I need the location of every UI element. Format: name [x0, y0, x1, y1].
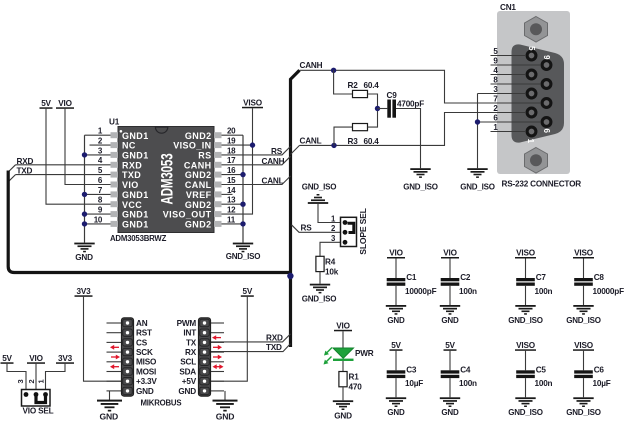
power 3V3 above mikrobus [75, 287, 93, 297]
wire RS from bus to SLOPE SEL pin2 [292, 225, 341, 233]
svg-text:10k: 10k [325, 267, 339, 276]
wire 3V3 to +3.3V pin [84, 297, 122, 381]
svg-text:GND: GND [100, 412, 119, 422]
wire CN1 pin 2 [445, 112, 526, 114]
svg-text:100n: 100n [459, 379, 477, 388]
wire 5V to pin8 VCC [46, 109, 111, 204]
wire gnd to SLOPE SEL pin1 [318, 204, 341, 223]
wire stubs mikrobus left header [107, 323, 122, 391]
wire pin14 VREF stub [222, 193, 233, 195]
svg-text:GND2: GND2 [185, 131, 212, 141]
svg-text:+3.3V: +3.3V [136, 377, 157, 386]
ground GND below U1 left [74, 243, 94, 253]
svg-text:ADM3053BRWZ: ADM3053BRWZ [110, 234, 167, 243]
svg-text:AN: AN [136, 319, 148, 328]
svg-text:U1: U1 [109, 118, 120, 127]
junction node CN1 pin6 gnd [475, 119, 480, 124]
wire RS from pin18 to bus [222, 146, 291, 155]
wire CN1 pin 3 [478, 93, 526, 95]
U1 right pin name labels [163, 131, 212, 230]
svg-text:GND2: GND2 [185, 220, 212, 230]
wire R1 to ground [342, 387, 344, 401]
svg-text:18: 18 [227, 146, 236, 155]
wire TXD diagonal into bus [8, 175, 15, 182]
capacitor C7 with power VISO [508, 249, 552, 325]
U1 left pin numbers 1-10 [94, 127, 103, 225]
svg-text:10000pF: 10000pF [405, 287, 437, 296]
header mikrobus right [199, 318, 211, 396]
CN1 top hex screw [525, 17, 548, 43]
svg-text:TXD: TXD [122, 170, 141, 180]
svg-text:10: 10 [94, 215, 103, 224]
wire R4 to ground [319, 272, 321, 284]
svg-text:14: 14 [227, 186, 236, 195]
wire C9 right lead to ground [396, 109, 421, 169]
wire CANH top run to DB9 pin7 [300, 70, 542, 103]
connector CN1 DB9 body [497, 3, 570, 174]
U1 notch [155, 127, 167, 133]
wire CN1 pin 8 [491, 83, 542, 85]
wire pin13 GND2 [222, 203, 244, 205]
junction node CANH/R2 [331, 68, 336, 73]
svg-text:GND2: GND2 [185, 170, 212, 180]
svg-text:VIO: VIO [29, 354, 43, 363]
svg-text:3V3: 3V3 [58, 354, 73, 363]
ground GND_ISO below U1 right [233, 243, 253, 253]
svg-text:C3: C3 [406, 365, 417, 374]
svg-text:R1: R1 [349, 372, 360, 381]
power VIO at VIO SEL [27, 354, 45, 364]
svg-text:19: 19 [227, 137, 236, 146]
svg-text:VREF: VREF [186, 190, 212, 200]
svg-text:3V3: 3V3 [77, 287, 92, 296]
wire stubs mikrobus right header [211, 323, 225, 391]
svg-text:GND_ISO: GND_ISO [403, 183, 438, 192]
svg-text:R4: R4 [325, 257, 336, 266]
svg-text:C5: C5 [536, 365, 547, 374]
wire CANL exits bus diagonal [291, 145, 300, 154]
svg-text:GND1: GND1 [122, 190, 149, 200]
svg-text:5V: 5V [242, 287, 252, 296]
svg-text:GND1: GND1 [122, 131, 149, 141]
svg-text:GND: GND [387, 408, 405, 417]
svg-text:470: 470 [349, 382, 363, 391]
svg-text:GND_ISO: GND_ISO [226, 252, 261, 261]
CN1 pin 5 circle [527, 51, 536, 60]
header SLOPE SEL [331, 208, 368, 254]
svg-text:VIO: VIO [58, 99, 72, 108]
junction node pin10 [82, 221, 87, 226]
power VISO above U1 right [242, 99, 263, 109]
capacitor C2 with power VIO [440, 249, 477, 325]
mikrobus right pin labels [177, 319, 197, 396]
GND net vertical left of U1 [84, 135, 86, 242]
wire VIO to LED [342, 331, 344, 348]
svg-text:SDA: SDA [179, 367, 196, 376]
ground GND below right header [213, 400, 238, 412]
CN1 pin 7 circle [542, 99, 551, 108]
svg-text:SLOPE SEL: SLOPE SEL [358, 208, 368, 254]
wire pin19 VISO_IN [222, 144, 253, 146]
CN1 bottom hex screw [525, 148, 548, 174]
svg-text:GND: GND [216, 412, 235, 422]
capacitor C1 with power VIO [386, 249, 437, 325]
wire RXD bus to TX pin [211, 334, 291, 342]
svg-text:11: 11 [227, 215, 236, 224]
svg-text:GND_ISO: GND_ISO [508, 316, 543, 325]
svg-text:GND_ISO: GND_ISO [302, 183, 337, 192]
svg-text:SCK: SCK [136, 348, 153, 357]
svg-text:CANL: CANL [185, 180, 212, 190]
junction node pin11 [240, 221, 245, 226]
wire 5V to VIO SEL pin3 [7, 364, 26, 390]
svg-text:RS: RS [198, 151, 211, 161]
wire TXD pin5 [16, 174, 111, 176]
svg-text:VIO: VIO [122, 180, 139, 190]
svg-text:VISO: VISO [243, 99, 263, 108]
wire CN1 pin 6 [478, 121, 542, 123]
svg-text:INT: INT [183, 329, 196, 338]
bus left RXD/TXD [8, 171, 290, 273]
svg-text:5V: 5V [2, 354, 12, 363]
wire pin3 GND1 [85, 154, 111, 156]
wire 3V3 to VIO SEL pin1 [46, 364, 66, 390]
U1 pin stubs left [111, 132, 119, 227]
svg-text:5V: 5V [391, 341, 401, 350]
svg-text:RS-232 CONNECTOR: RS-232 CONNECTOR [502, 180, 582, 189]
svg-text:VISO_OUT: VISO_OUT [163, 210, 212, 220]
op-amp U1 transceiver ADM3053 [109, 118, 214, 244]
svg-text:1: 1 [37, 379, 46, 383]
svg-text:GND1: GND1 [122, 220, 149, 230]
svg-text:17: 17 [227, 156, 236, 165]
svg-text:100n: 100n [535, 287, 553, 296]
svg-text:NC: NC [122, 141, 136, 151]
svg-text:TX: TX [186, 338, 197, 347]
CN1 pin 4 circle [527, 70, 536, 79]
mikrobus left red arrows [110, 345, 120, 369]
svg-text:GND1: GND1 [122, 151, 149, 161]
svg-text:C7: C7 [536, 273, 547, 282]
svg-text:100n: 100n [535, 379, 553, 388]
wire VISO vertical to pin12 [222, 108, 253, 214]
svg-text:10µF: 10µF [593, 379, 611, 388]
svg-text:GND: GND [441, 316, 459, 325]
wire pin11 GND2 [222, 223, 244, 225]
U1 right pin numbers 20-11 [227, 127, 236, 225]
svg-text:GND: GND [387, 316, 405, 325]
svg-text:VIO: VIO [389, 249, 403, 258]
wire CN1 pin3/pin6 ground vertical [477, 94, 479, 169]
wire CN1 pin 5 [491, 55, 526, 57]
svg-text:VISO: VISO [516, 249, 536, 258]
junction node bus corner [287, 273, 293, 279]
svg-text:C2: C2 [460, 273, 471, 282]
junction node pin7 [82, 192, 87, 197]
svg-text:12: 12 [227, 206, 236, 215]
svg-text:+5V: +5V [182, 377, 197, 386]
wire CANL to R3 [334, 127, 353, 145]
resistor R1 [339, 372, 347, 387]
svg-text:VISO_IN: VISO_IN [173, 141, 211, 151]
svg-text:MOSI: MOSI [136, 367, 156, 376]
CN1 pin 6 circle [542, 118, 551, 127]
svg-text:C9: C9 [387, 91, 398, 100]
CN1 pin 2 circle [527, 108, 536, 117]
svg-text:2: 2 [27, 379, 36, 383]
CN1 pin 3 circle [527, 89, 536, 98]
svg-text:MIKROBUS: MIKROBUS [141, 398, 182, 407]
wire mikrobus left GND [109, 391, 111, 400]
svg-text:RST: RST [136, 329, 152, 338]
svg-text:GND2: GND2 [185, 200, 212, 210]
svg-text:PWM: PWM [177, 319, 197, 328]
GND2 net vertical right of U1 [242, 135, 244, 242]
CN1 D-sub face [512, 44, 565, 142]
ground GND_ISO below CN1 [467, 168, 487, 178]
ground GND below R1 [333, 400, 353, 410]
svg-text:CANH: CANH [184, 160, 212, 170]
svg-text:16: 16 [227, 166, 236, 175]
svg-text:5V: 5V [445, 341, 455, 350]
wire VIO to VIO SEL pin2 [35, 364, 37, 390]
U1 left pin name labels [122, 131, 149, 230]
power 5V above mikrobus right [241, 287, 254, 297]
svg-text:C4: C4 [460, 365, 471, 374]
wire CANH to R2 [334, 70, 353, 94]
junction node pin13 [240, 202, 245, 207]
capacitor C8 with power VISO [566, 249, 624, 325]
mikrobus right red arrows [212, 335, 224, 369]
wire CANL run to DB9 pin2 [300, 113, 526, 146]
ground GND below left header [97, 400, 122, 412]
ground GND_ISO below C9 [410, 168, 430, 178]
wire CN1 pin 4 [491, 74, 526, 76]
wire pin2 NC stub [90, 144, 111, 146]
junction node pin19 VISO [250, 142, 255, 147]
svg-text:GND: GND [441, 408, 459, 417]
svg-text:60.4: 60.4 [364, 81, 380, 90]
U1 body [118, 127, 214, 233]
junction node CANL/R3 [331, 143, 336, 148]
junction node C9 [375, 106, 380, 111]
svg-text:GND_ISO: GND_ISO [302, 295, 337, 304]
svg-text:MISO: MISO [136, 358, 157, 367]
svg-text:RX: RX [185, 348, 197, 357]
capacitor C4 with power 5V [440, 341, 477, 417]
CN1 pin 8 circle [542, 80, 551, 89]
svg-text:PWR: PWR [355, 349, 374, 358]
CN1 pin 1 circle [527, 127, 536, 136]
svg-text:C6: C6 [594, 365, 605, 374]
wire CANH from pin17 to bus [222, 156, 291, 165]
U1 pin1 marker dot [120, 130, 123, 133]
svg-text:TXD: TXD [266, 343, 282, 352]
wire pin16 GND2 [222, 174, 244, 176]
svg-text:GND_ISO: GND_ISO [460, 183, 495, 192]
svg-text:VCC: VCC [122, 200, 142, 210]
junction node pin16 [240, 172, 245, 177]
wire SLOPE SEL pin3 to R4 [320, 242, 341, 256]
wire C9 left lead [378, 108, 388, 110]
svg-text:60.4: 60.4 [364, 137, 380, 146]
svg-text:CANL: CANL [300, 136, 322, 145]
mikrobus left pin labels [136, 319, 157, 396]
svg-text:GND_ISO: GND_ISO [566, 408, 601, 417]
svg-text:R2: R2 [348, 81, 359, 90]
svg-text:CN1: CN1 [500, 3, 516, 12]
wire pin1 GND1 [85, 134, 111, 136]
svg-text:GND: GND [136, 387, 154, 396]
power VIO top-left [56, 99, 74, 109]
svg-text:100n: 100n [459, 287, 477, 296]
wire pin7 GND1 [85, 193, 111, 195]
CN1 pin 9 circle [542, 61, 551, 70]
wire R2 to C9 node [368, 94, 378, 109]
capacitor C6 with power VISO [566, 341, 611, 417]
svg-text:C8: C8 [594, 273, 605, 282]
svg-text:R3: R3 [348, 137, 359, 146]
svg-text:CS: CS [136, 338, 148, 347]
svg-text:15: 15 [227, 176, 236, 185]
svg-text:GND_ISO: GND_ISO [566, 316, 601, 325]
wire CN1 pin 9 [491, 64, 542, 66]
svg-text:10000pF: 10000pF [593, 287, 625, 296]
capacitor C3 with power 5V [386, 341, 423, 417]
wire RXD diagonal into bus [8, 165, 15, 172]
resistor R2 [353, 90, 368, 97]
svg-text:GND: GND [178, 387, 196, 396]
capacitor C5 with power VISO [508, 341, 552, 417]
svg-text:5V: 5V [41, 99, 51, 108]
resistor R4 [316, 256, 324, 271]
svg-text:GND_ISO: GND_ISO [508, 408, 543, 417]
wire mikrobus right GND [224, 391, 226, 400]
svg-text:GND: GND [75, 253, 93, 262]
svg-text:VISO: VISO [574, 341, 594, 350]
wire R3 to C9 node [368, 109, 378, 128]
junction node pin3 [82, 152, 87, 157]
svg-text:RS: RS [301, 223, 313, 232]
power 5V top-left [40, 99, 53, 109]
svg-text:VISO: VISO [516, 341, 536, 350]
svg-text:ADM3053: ADM3053 [158, 153, 176, 204]
svg-text:GND: GND [334, 411, 352, 420]
svg-text:VIO: VIO [443, 249, 457, 258]
svg-text:CANH: CANH [300, 61, 323, 70]
wire RXD pin4 [16, 164, 111, 166]
svg-text:10µF: 10µF [405, 379, 423, 388]
wire CN1 pin 7 [445, 102, 542, 104]
header VIO SEL [16, 379, 50, 406]
junction node pin9 [82, 211, 87, 216]
ground GND_ISO below R4 [310, 284, 330, 294]
svg-text:SCL: SCL [180, 358, 196, 367]
svg-text:4700pF: 4700pF [397, 100, 424, 109]
wire 5V to +5V pin [211, 297, 248, 381]
wire LED to R1 [342, 361, 344, 372]
svg-text:3: 3 [16, 379, 25, 383]
bus vertical CAN/RS/RXD/TXD [291, 70, 300, 347]
svg-text:GND1: GND1 [122, 210, 149, 220]
wire pin9 GND1 [85, 213, 111, 215]
U1 pin stubs right [214, 132, 222, 227]
power VIO above LED [334, 322, 352, 332]
wire CANL from pin15 to bus [222, 176, 291, 185]
svg-text:C1: C1 [406, 273, 417, 282]
resistor R3 [353, 124, 368, 131]
wire pin20 GND2 [222, 134, 244, 136]
svg-text:VIO SEL: VIO SEL [23, 407, 54, 416]
power 5V at VIO SEL [1, 354, 14, 364]
capacitor C9 [387, 100, 391, 118]
svg-text:VISO: VISO [574, 249, 594, 258]
power 3V3 at VIO SEL [56, 354, 74, 364]
svg-text:VIO: VIO [336, 322, 350, 331]
LED PWR green [324, 348, 354, 365]
svg-text:20: 20 [227, 127, 236, 136]
wire CN1 pin 1 [491, 131, 526, 133]
wire TXD bus to RX pin [211, 344, 291, 352]
svg-text:RXD: RXD [266, 333, 283, 342]
wire VIO to pin6 [65, 109, 111, 185]
svg-text:13: 13 [227, 196, 236, 205]
header mikrobus left [122, 318, 134, 396]
wire pin10 GND1 [85, 223, 111, 225]
svg-text:RXD: RXD [122, 160, 142, 170]
